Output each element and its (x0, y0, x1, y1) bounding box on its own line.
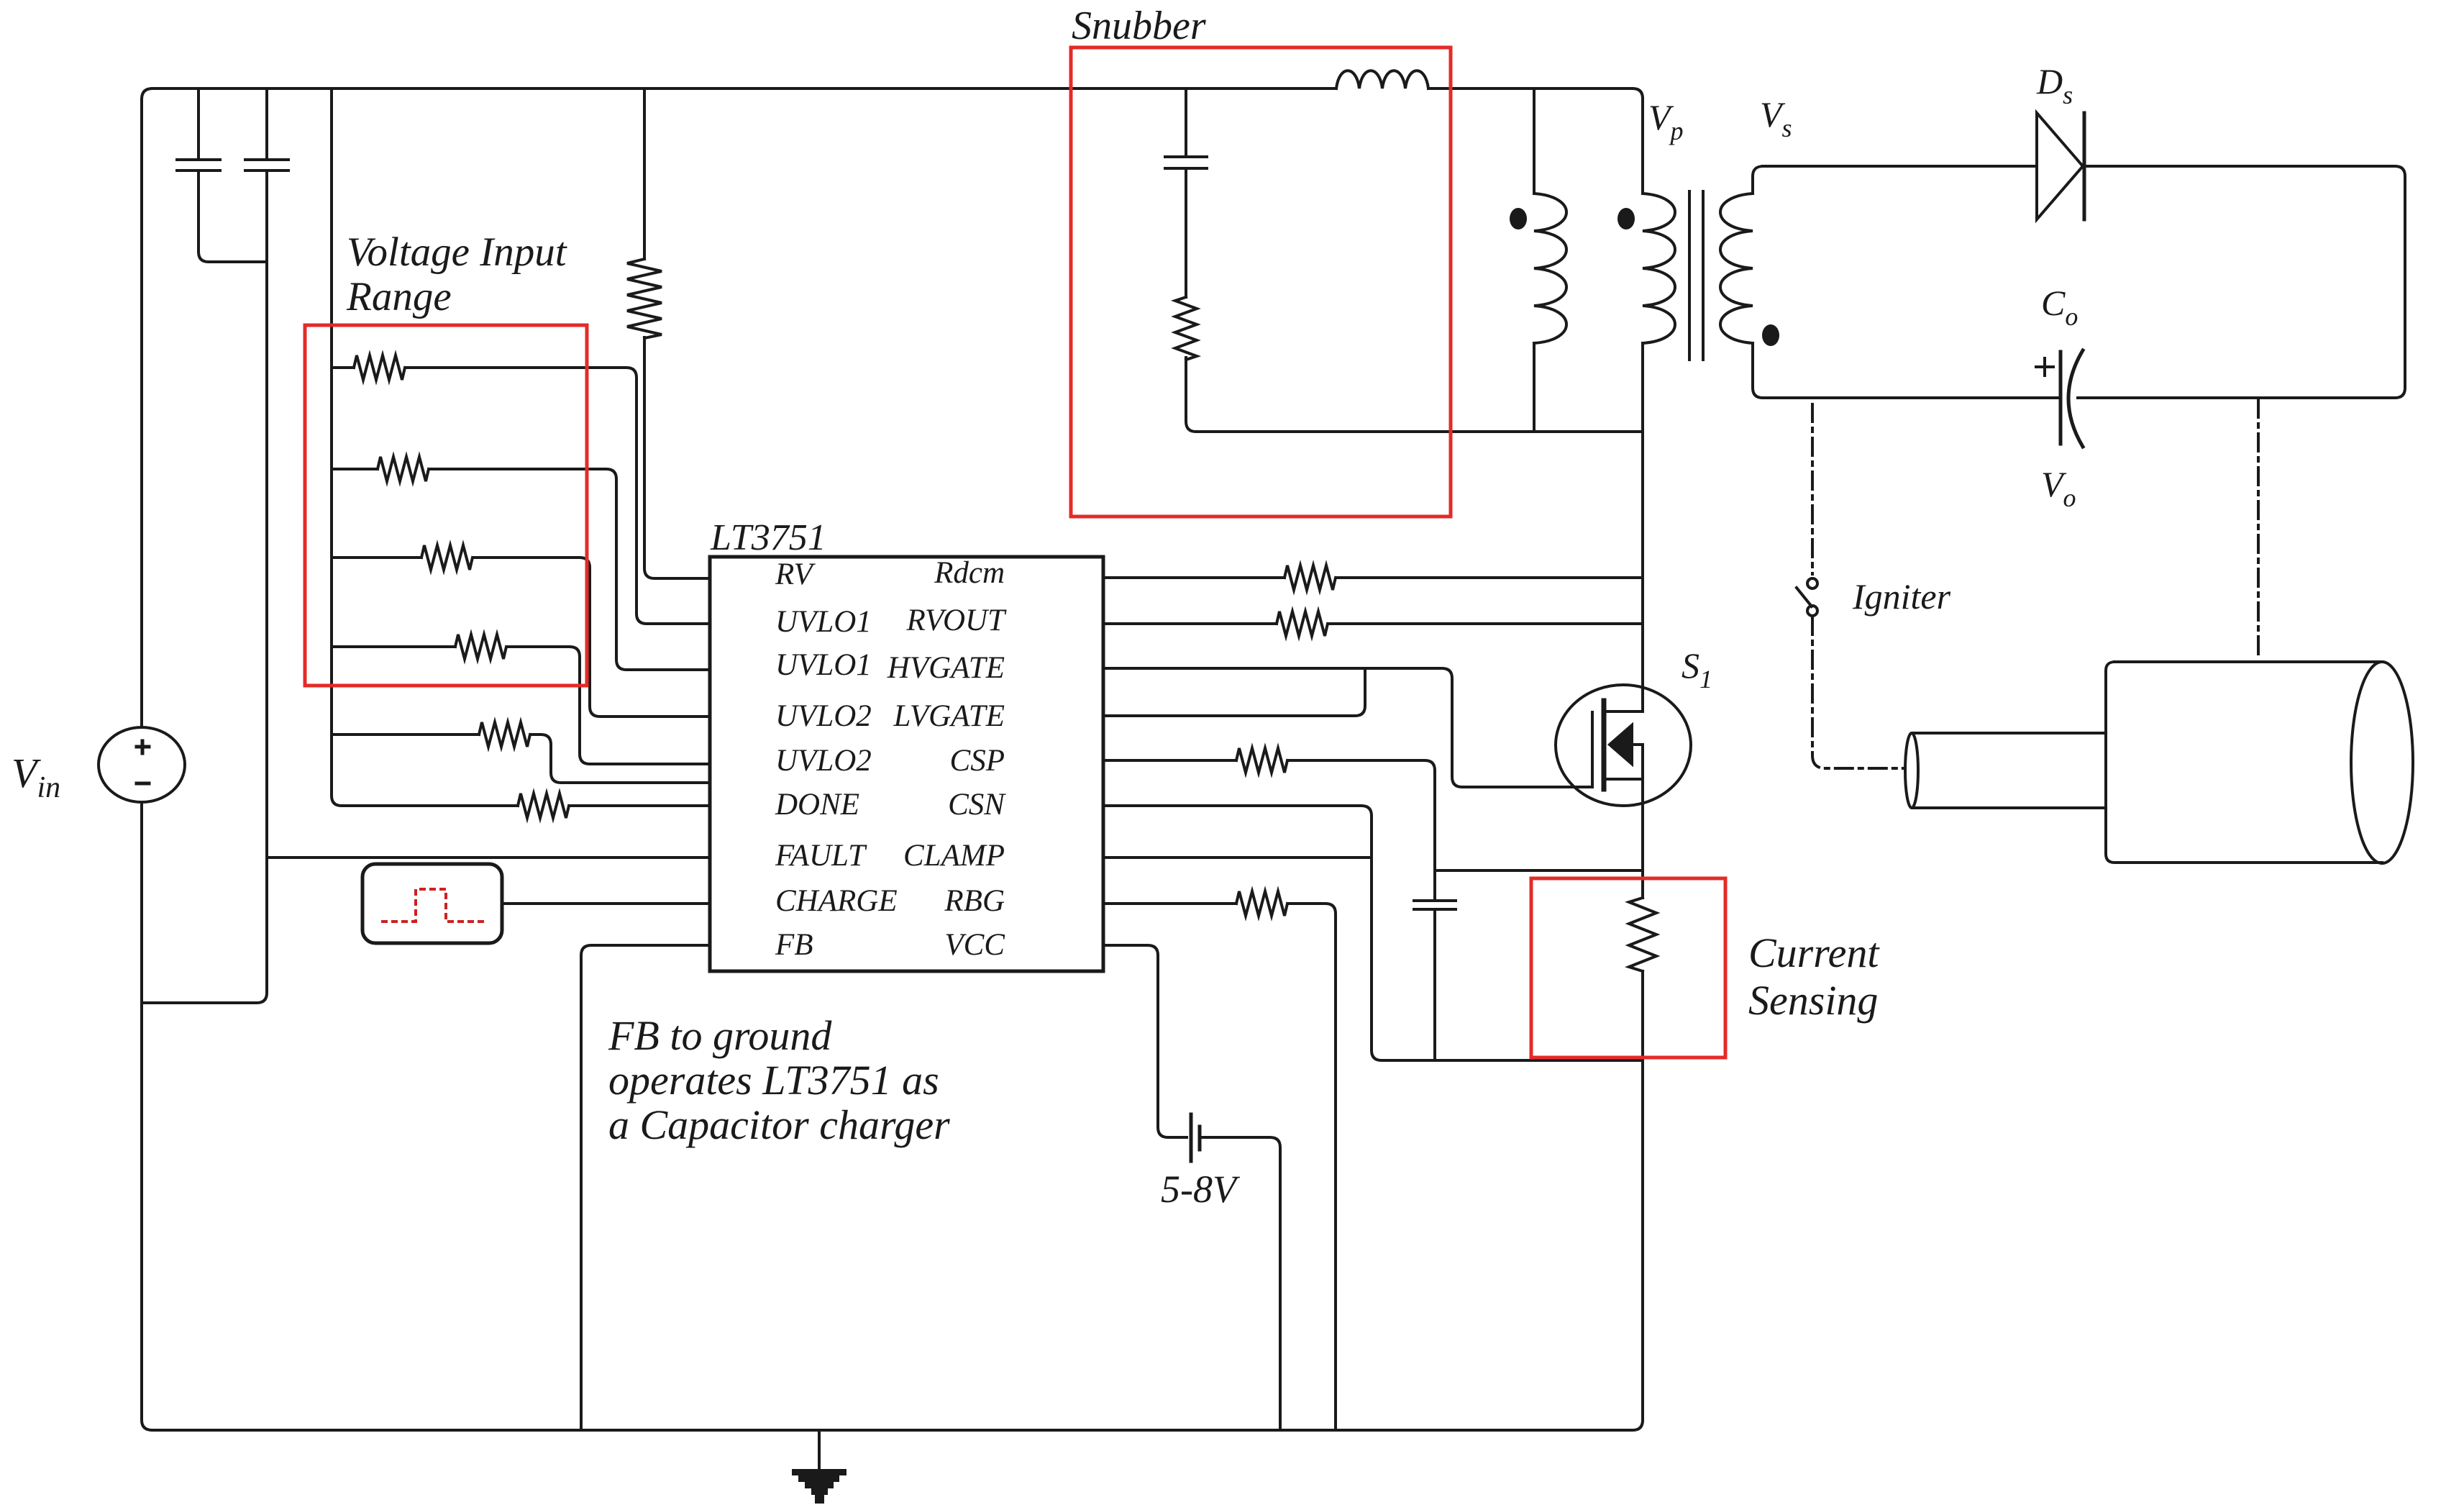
dot secondary (1762, 324, 1779, 346)
lamp neck (1905, 733, 2106, 808)
wire top rail left segment (152, 87, 1336, 90)
wire LVGATE join (1103, 668, 1365, 716)
resistor Rbg (1103, 891, 1336, 1430)
diode Ds (2037, 113, 2084, 219)
capacitor C1 input (177, 88, 267, 262)
wire FB to ground (581, 945, 710, 1430)
igniter switch contacts (1807, 578, 1817, 588)
wire CSP node to MOSFET source (1435, 869, 1643, 872)
resistor R2 divider row2 (332, 457, 710, 670)
resistor R5 UVLO2 row (332, 722, 710, 783)
svg-text:FB: FB (775, 928, 813, 962)
resistor Rsense current sensing (1629, 870, 1656, 1420)
svg-text:CHARGE: CHARGE (775, 884, 898, 918)
ground stub (818, 1430, 821, 1470)
wire CHARGE from pulse box (502, 902, 710, 905)
svg-text:HVGATE: HVGATE (887, 651, 1005, 685)
transistor S1 circle (1556, 685, 1691, 806)
svg-text:Voltage Input: Voltage Input (347, 229, 567, 275)
transformer secondary winding (1720, 166, 1763, 398)
source Vin circle (99, 727, 185, 802)
annotation box voltage input range (305, 325, 587, 686)
transformer core (1689, 191, 1703, 360)
svg-text:UVLO1: UVLO1 (775, 605, 872, 639)
dot primary (1617, 208, 1635, 229)
svg-text:Snubber: Snubber (1072, 4, 1206, 48)
igniter dash-dot upper (1811, 404, 1814, 574)
svg-text:CLAMP: CLAMP (903, 839, 1005, 873)
svg-text:Sensing: Sensing (1748, 977, 1878, 1024)
wire top rail right segment (1428, 88, 1643, 99)
wire diode to right rail (2084, 166, 2405, 398)
igniter dash-dot lower (1812, 617, 1904, 768)
svg-text:UVLO2: UVLO2 (775, 699, 872, 733)
wire bottom ground rail (152, 1420, 1643, 1430)
Co plus sign (2036, 358, 2053, 376)
battery B1 5-8V (1191, 1114, 1280, 1430)
IC U1 LT3751 box (710, 557, 1103, 971)
svg-text:VCC: VCC (944, 928, 1005, 962)
wire FAULT to rail2 (267, 856, 710, 859)
lamp body (2106, 662, 2413, 863)
Vin plus sign (137, 741, 149, 753)
resistor R6 DONE row (342, 793, 710, 818)
inductor L snubber (1336, 71, 1428, 88)
svg-text:a Capacitor charger: a Capacitor charger (608, 1101, 950, 1148)
annotation box snubber (1071, 47, 1451, 517)
pulse waveform (383, 889, 483, 922)
lamp dash-dot from output (2257, 400, 2260, 660)
wire output bottom (1763, 396, 2395, 399)
svg-text:Rdcm: Rdcm (934, 556, 1005, 590)
svg-text:DONE: DONE (775, 788, 859, 822)
svg-text:CSP: CSP (950, 744, 1005, 778)
wire CLAMP (1103, 856, 1372, 859)
svg-text:RBG: RBG (944, 884, 1005, 918)
svg-text:LVGATE: LVGATE (893, 699, 1005, 733)
resistor Rdcm (1103, 565, 1643, 590)
resistor Rvout (1103, 611, 1643, 636)
pulse generator box (362, 864, 502, 943)
svg-text:LT3751: LT3751 (710, 517, 826, 558)
wire rail2 (142, 170, 267, 1003)
svg-text:RV: RV (775, 558, 816, 591)
transformer magnetizing winding (1534, 88, 1566, 432)
Vin minus sign (137, 782, 149, 786)
ground symbol (792, 1469, 847, 1504)
wire VCC to battery (1103, 945, 1187, 1137)
dot primary aux (1510, 208, 1527, 229)
resistor R4 divider row4 (332, 635, 710, 764)
resistor R1 divider row1 (332, 355, 710, 624)
wire left rail upper (142, 88, 152, 727)
wire left rail lower (142, 802, 152, 1430)
wire snubber branch (1165, 88, 1643, 432)
annotation box current sensing (1531, 878, 1725, 1058)
svg-text:RVOUT: RVOUT (906, 604, 1008, 637)
transistor S1 body arrow (1610, 725, 1632, 764)
wire CSN down (1103, 806, 1643, 1060)
svg-text:UVLO1: UVLO1 (775, 648, 872, 682)
capacitor C clamp (1414, 870, 1456, 1060)
svg-text:Range: Range (346, 274, 452, 319)
svg-text:5-8V: 5-8V (1161, 1168, 1241, 1211)
svg-text:operates LT3751 as: operates LT3751 as (608, 1057, 939, 1104)
resistor Rcsp (1103, 748, 1435, 870)
svg-text:FB to ground: FB to ground (608, 1012, 832, 1059)
capacitor Co output (2061, 350, 2083, 447)
capacitor C2 input (245, 88, 288, 170)
wire rail3 divider bus (332, 88, 342, 806)
transformer primary winding (1643, 99, 1675, 711)
resistor R7 RV pullup vertical (627, 88, 710, 578)
wire HVGATE to gate (1103, 668, 1592, 787)
igniter switch blade (1797, 588, 1812, 606)
MOSFET S1 drain/source path (1592, 701, 1643, 870)
svg-text:CSN: CSN (948, 788, 1006, 822)
resistor R3 divider row3 (332, 545, 710, 717)
svg-text:FAULT: FAULT (775, 839, 867, 873)
svg-text:Current: Current (1748, 929, 1880, 976)
svg-text:Igniter: Igniter (1852, 576, 1951, 617)
svg-text:UVLO2: UVLO2 (775, 744, 872, 778)
wire secondary top to diode (1763, 165, 2037, 168)
